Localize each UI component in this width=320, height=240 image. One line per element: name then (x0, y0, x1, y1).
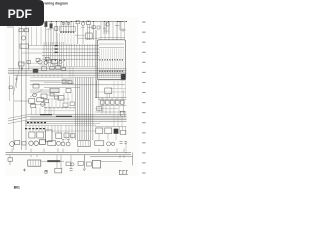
wire top link 2 (78, 37, 99, 39)
wire ticked run (44, 107, 75, 109)
net label N9 (142, 102, 145, 104)
wire S11 drop (77, 24, 79, 44)
wire bus D risers (12, 149, 124, 153)
wire RB links (99, 127, 126, 140)
net label N11 (142, 122, 145, 124)
switch S12 (33, 84, 39, 88)
wire box row feed (98, 98, 127, 100)
wire BL drops2 (52, 125, 61, 133)
wire mid diagonal (30, 90, 43, 98)
net label N8 (142, 92, 145, 94)
wire U4 feed (122, 90, 124, 111)
diode block D2 (106, 100, 110, 104)
wire faint drop fb (53, 28, 55, 46)
connector J3 (42, 67, 47, 71)
wire left-top risers (32, 27, 42, 46)
relay K8 (62, 80, 66, 83)
wire harness band B0 (30, 66, 98, 68)
wire tie tb (88, 26, 94, 28)
wire faint run (30, 104, 46, 106)
connector J7 (29, 99, 35, 104)
wire mid mesh h1 (46, 94, 58, 96)
node F cross (23, 169, 26, 172)
switch S4 (52, 60, 58, 64)
wire band stubs (34, 74, 62, 78)
capacitor C1 tip (60, 31, 74, 33)
rectifier U1 (29, 132, 35, 138)
net label N16 (142, 172, 145, 174)
horn H1 (105, 128, 112, 134)
svg-text:PDF: PDF (8, 7, 32, 21)
switch S9 marks (120, 141, 127, 143)
wire left tie 3 (22, 52, 43, 54)
connector J18 (50, 93, 54, 96)
relay box K1 outline (98, 40, 126, 80)
battery terminals row (119, 170, 128, 174)
node A (21, 68, 23, 70)
lamp L9 tail (34, 141, 38, 145)
resistor R1 left (19, 29, 23, 32)
wire K4 drop (55, 22, 57, 46)
wire cluster links (36, 62, 64, 68)
wire fuse F2 drop (50, 22, 52, 46)
wire grid rail 1 (42, 45, 99, 47)
wire bus D drops (10, 155, 124, 169)
connector J24 (22, 142, 26, 145)
wire fuse F1 drop (45, 22, 47, 46)
ground symbol left (45, 170, 48, 172)
wire right corner run (90, 152, 133, 165)
switch S15 (45, 57, 49, 60)
diode block D4 (116, 100, 120, 104)
lamp L2 headlamp (81, 22, 84, 25)
switch S3 handlebar (92, 26, 95, 29)
wire harness band C6 (25, 122, 100, 124)
lamp L7 (57, 141, 61, 145)
wire dotted meters (63, 78, 73, 83)
lamp L12 (107, 142, 111, 146)
connector J28 (66, 162, 71, 166)
wire left drop feed (9, 76, 11, 102)
wire band C slope 3 (8, 119, 30, 123)
wire FB1 inner (30, 160, 38, 165)
wire left vertical w3 (18, 27, 20, 68)
splice thick bar (48, 160, 61, 162)
lamp L14 (33, 93, 37, 97)
wire S3 drop (93, 22, 95, 41)
connector J12 dark (39, 140, 45, 145)
lamp L16 (71, 163, 74, 166)
wire bottom marks (62, 140, 69, 142)
switch S13 (58, 96, 64, 101)
wire right mesh v1 (114, 81, 126, 98)
lamp L13 (111, 142, 114, 145)
wire band C slope 1 (8, 116, 30, 121)
wire K7 drops (107, 94, 110, 98)
wire coil tails2 (62, 33, 74, 46)
wire left vertical w1 (21, 26, 23, 150)
battery BT1 (46, 130, 52, 142)
junction dots on bus (46, 21, 127, 23)
wire L2 drop (81, 25, 84, 44)
connector J9 (45, 100, 49, 103)
connector J8 (31, 104, 36, 108)
wire box row bottom (100, 105, 126, 107)
net label N15 (142, 162, 145, 164)
fuse F3 main dark (121, 74, 126, 80)
wire tie ta (46, 29, 51, 31)
switch S1 left (19, 62, 25, 66)
ignition coil T1 body (60, 26, 75, 31)
wire tie below grid (22, 62, 43, 64)
connector J17 (41, 94, 47, 99)
wire mid run 0 (30, 80, 70, 82)
wire bundle approach (70, 67, 73, 77)
wire right mesh h1 (110, 88, 126, 90)
wire right C risers (114, 114, 122, 126)
diode block D3 (111, 100, 115, 104)
wire mid mesh h3 (44, 110, 75, 112)
wire harness band C5 (25, 121, 127, 123)
splice S-bar 1 (55, 46, 58, 53)
wire harness band B4 (8, 73, 127, 75)
wire grid verticals sparse (67, 44, 96, 67)
connector J15 (8, 158, 13, 161)
connector pin P1 (62, 22, 64, 24)
wire ground bus D2 (6, 154, 132, 156)
wire diode feeds (102, 98, 122, 101)
connector pin P3 (97, 26, 100, 29)
net label N6 (142, 71, 145, 73)
fuse F1 (45, 22, 48, 27)
wire mid run 1 (30, 84, 125, 86)
lamp L10 (61, 142, 65, 146)
wire grid rail 5 (42, 58, 99, 60)
wire coil feed group (61, 22, 74, 33)
relay K6 (66, 89, 71, 93)
connector J1 (20, 44, 29, 48)
wire mid run 0b (44, 82, 62, 84)
wire BL drops3 (66, 125, 72, 140)
net label N12 (142, 132, 145, 134)
net label N7 (142, 82, 145, 84)
wire branch k1 (116, 22, 118, 41)
connector J13 multi (78, 141, 90, 147)
wire band C slope 2 (8, 114, 30, 118)
wire harness band B2 (8, 69, 127, 71)
connector J4 (50, 67, 54, 70)
wire right mesh h2 (95, 91, 126, 93)
wire harness band C2 (30, 115, 127, 117)
wire harness band C7 (25, 124, 96, 126)
net label N13 (142, 142, 145, 144)
connector J19 (55, 96, 59, 99)
wire left tie 2 (29, 48, 43, 50)
wire mid mesh v1 (52, 99, 60, 108)
wire grid rail 4 (42, 55, 99, 57)
wire harness band C1 (30, 113, 127, 115)
lamp L8 tail (29, 141, 33, 145)
winker relay K5 (86, 33, 92, 39)
connector J27 (121, 130, 126, 134)
wire K1 terminal row lower (99, 70, 123, 72)
relay K3 dark (114, 129, 118, 134)
switch S6 (37, 98, 44, 102)
wire left vertical w2 (25, 26, 27, 150)
node G cross (15, 78, 18, 81)
wire coil tails (58, 33, 60, 46)
wire harness band B1 (8, 68, 127, 70)
net label N4 (142, 51, 145, 53)
net label N2 (142, 31, 145, 33)
net label N5 (142, 61, 145, 63)
wire mid run 5 (30, 89, 58, 91)
PDF badge (0, 0, 44, 26)
wire left harness run (13, 27, 15, 150)
wire top bus stub left (7, 26, 14, 28)
wire K1 pin field (100, 61, 124, 79)
net label N14 (142, 152, 145, 154)
lamp L4 meter (38, 60, 42, 64)
wire below stub (9, 161, 11, 165)
ignition switch S7 (10, 142, 15, 147)
regulator U2 (37, 132, 44, 138)
connector J16 (55, 168, 62, 173)
wire branch k2 (119, 22, 121, 31)
wire antenna drop (83, 155, 85, 171)
wire K1 inner rail 1 (99, 43, 124, 45)
connector J20 (97, 107, 102, 111)
wire tick t1 (103, 27, 106, 29)
wire harness band B5 (14, 75, 127, 77)
wire right dashed drop (125, 142, 127, 156)
switch S2 handlebar (87, 21, 91, 25)
connector J23 (71, 134, 75, 138)
wire harness band C4 (30, 119, 127, 121)
diode block D1 (101, 100, 105, 104)
wire cluster risers2 (45, 103, 49, 115)
wire mid run 4 (30, 91, 60, 93)
wire bottom link (52, 130, 96, 132)
starter relay K7 (105, 88, 112, 94)
flasher unit U3 (96, 128, 103, 134)
fuse box FB1 (28, 160, 41, 166)
wire box side drops (96, 30, 97, 98)
wire left tie 1 (29, 45, 43, 47)
wire bundle extra (96, 80, 98, 98)
net label N3 (142, 41, 145, 43)
wire right drops2 (102, 106, 123, 115)
lamp L17 (45, 171, 48, 174)
svg-text:wiring diagram: wiring diagram (44, 1, 69, 5)
wire jog right (120, 28, 126, 32)
connector J10 (56, 133, 62, 139)
lamp L5 meter (44, 61, 48, 65)
wire faint drop fa (47, 28, 49, 46)
wire grid rail 2 (42, 48, 99, 50)
connector J26 (70, 102, 74, 106)
wire cluster risers (32, 108, 41, 115)
wire RB feed (95, 126, 127, 128)
terminal tips grid (46, 59, 65, 61)
wire harness band B3 (8, 71, 127, 73)
wire harness band B6 (30, 76, 127, 78)
wire s16 drop (28, 64, 30, 69)
switch S5 (56, 66, 61, 70)
switch S14 (36, 58, 40, 61)
wire ground bus D1 (6, 151, 132, 153)
connector J21 (9, 86, 12, 89)
wire left vertical w4 (28, 27, 30, 70)
wire main positive bus (44, 21, 126, 23)
switch S16 (27, 61, 31, 64)
wire harness band C3 (30, 117, 127, 119)
wire left riser (16, 76, 18, 89)
connector J25 (63, 103, 68, 107)
wire grid rail 3 (42, 51, 99, 53)
connector J11 (15, 140, 20, 144)
wire J13 pins (80, 141, 88, 146)
splice bar dark upper (27, 122, 46, 124)
net label N1 (142, 21, 145, 23)
diode block D5 (121, 100, 125, 104)
wire feed left (14, 100, 29, 102)
wire turn drops (104, 22, 109, 35)
lamp L6 (41, 103, 45, 107)
fuse F2 (50, 24, 53, 29)
resistor R2 left (24, 29, 28, 32)
wire K1 terminal row upper (99, 59, 123, 61)
wire S2 drops (88, 25, 90, 40)
switch S10 marks (70, 169, 73, 171)
node E tee (117, 21, 123, 23)
wire right mid run2 (95, 108, 118, 110)
wire right mid run (95, 111, 126, 113)
wire pre-box rail (99, 37, 125, 39)
wire grid verticals dense (44, 42, 64, 67)
wire center bundle (76, 78, 93, 141)
wire left C risers (51, 108, 54, 115)
node dots meters (63, 83, 74, 85)
wire diagonal cable left (13, 66, 20, 95)
net label N10 (142, 112, 145, 114)
wire M1 run (101, 161, 122, 163)
wire top link 1 (75, 34, 85, 36)
wire K1 upper pins (100, 49, 124, 60)
wire K1 inner rail 2 (99, 47, 124, 49)
wire mid faint h (30, 81, 60, 83)
wire mid mesh v2 (64, 93, 72, 104)
connector J5 (62, 68, 66, 71)
voltage regulator U4 (120, 111, 125, 116)
wire box entry drops (101, 22, 125, 40)
wire BL drops (30, 125, 48, 132)
wire below box run (95, 78, 126, 80)
connector pin P2 (67, 22, 69, 24)
starter motor M1 (92, 161, 100, 169)
connector J14 (95, 141, 104, 146)
lamp L3 indicator (106, 23, 109, 26)
connector J29 (87, 162, 92, 166)
lamp L15 (59, 60, 62, 63)
wire tie tc (104, 30, 109, 32)
connector J22 (64, 133, 69, 138)
wire right riser pair (99, 98, 103, 112)
relay K2 dark (33, 69, 38, 73)
wire mid run 3 (95, 97, 127, 99)
horn switch S11 (76, 21, 79, 24)
svg-text:B61: B61 (14, 185, 20, 189)
relay K4 small (55, 27, 58, 31)
relay K9 (68, 81, 72, 84)
connector J6 (50, 88, 59, 93)
switch S8 (48, 141, 56, 146)
wire mid run 2 (44, 87, 80, 89)
node D tick (115, 24, 119, 26)
wire below run 1 (41, 160, 64, 162)
lamp L1 pilot (21, 36, 25, 40)
terminal strip dark (40, 115, 72, 117)
splice bar dark lower (25, 128, 45, 130)
resistor R3 (78, 161, 83, 165)
wire mid mesh h2 (48, 98, 70, 100)
lamp L11 (66, 142, 70, 146)
